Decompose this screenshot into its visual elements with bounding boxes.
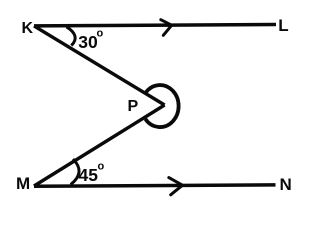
arrow on line KL xyxy=(161,20,172,36)
reflex angle circle at P xyxy=(145,85,178,127)
svg-text:45: 45 xyxy=(79,165,99,185)
arrow on line MN xyxy=(169,178,183,195)
svg-text:K: K xyxy=(22,20,34,37)
svg-text:N: N xyxy=(280,175,292,194)
svg-text:L: L xyxy=(278,16,288,35)
angle arc 30 deg at K xyxy=(67,27,76,46)
svg-text:30: 30 xyxy=(78,32,98,52)
line KL (top transversal) xyxy=(34,25,276,26)
svg-text:M: M xyxy=(16,174,30,193)
line MN (bottom transversal) xyxy=(34,185,276,186)
svg-text:o: o xyxy=(97,28,104,40)
wire segment M to P xyxy=(34,105,165,186)
wire segment K to P xyxy=(34,26,165,105)
svg-text:P: P xyxy=(128,98,139,115)
svg-text:o: o xyxy=(98,161,105,173)
angle arc 45 deg at M xyxy=(71,159,79,185)
